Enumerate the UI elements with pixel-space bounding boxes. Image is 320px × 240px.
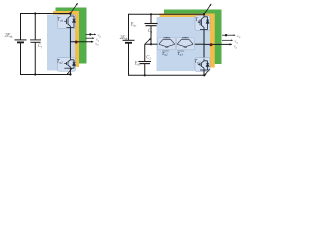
node: output right (dark red): [210, 43, 213, 46]
commutation-cell highlight yellow rectangle (middle): [53, 11, 79, 67]
node: C2 bottom junction: [144, 74, 146, 76]
wire: top rail: [21, 13, 71, 15]
wire: left vertical lower: [20, 43, 22, 75]
voltage arrow row B: [86, 37, 95, 39]
horizontal IGBT cell Ta1bar: [177, 37, 193, 47]
node: top rail / C1 junction: [150, 13, 152, 15]
wire: C1 lower to midpoint branch: [150, 26, 152, 45]
svg-text:Edc: Edc: [130, 22, 137, 27]
node: capacitor bottom junction: [34, 73, 36, 75]
wire: capacitor branch lower: [34, 42, 36, 75]
IGBT Ta2 right with antiparallel diode: [198, 59, 209, 70]
node: C1 to branch junction: [150, 43, 152, 45]
wire: leg middle (Ta1 emitter to Ta2 collector): [69, 28, 71, 58]
wire: left vertical upper: [20, 13, 22, 40]
switch cell box Ta1 right: [195, 16, 210, 31]
middle switch cell box Ta2bar: [158, 37, 176, 50]
commutation-cell highlight green rectangle (back): [56, 8, 87, 64]
arrow bottom commutation: [67, 68, 72, 75]
capacitor C1 plate top: [145, 23, 158, 25]
arrow top commutation right: [204, 4, 211, 14]
capacitor C plate bottom: [31, 41, 41, 43]
arrow midpoint commutation: [145, 38, 151, 44]
svg-text:C2: C2: [146, 56, 151, 61]
svg-text:Ta1: Ta1: [57, 18, 63, 23]
wire: right leg middle: [203, 30, 205, 59]
node: capacitor top junction: [34, 12, 36, 14]
capacitor C2 plate bottom: [140, 63, 151, 65]
switch cell box Ta2: [58, 58, 76, 72]
node: top rail / Ta1 collector junction: [69, 12, 71, 14]
svg-text:C1: C1: [148, 29, 153, 34]
horizontal IGBT cell Ta2bar: [159, 37, 175, 47]
wire: Ta2 emitter to bottom rail: [69, 68, 71, 74]
node on row A: [89, 33, 91, 35]
IGBT Ta2 with antiparallel diode: [64, 57, 75, 68]
arrow top commutation: [71, 3, 78, 13]
middle switch cell box Ta1bar: [176, 37, 194, 50]
wire: output tap right: [204, 43, 232, 45]
node: bottom rail junction: [69, 73, 71, 75]
wire: bottom rail: [20, 74, 70, 76]
battery source 2Edc short plate: [125, 42, 132, 44]
wire: output tap: [70, 41, 93, 43]
battery source 2Edc short plate: [17, 41, 24, 43]
wire: bottom rail right: [128, 74, 204, 76]
switch cell box Ta2 right: [195, 58, 210, 72]
node on row A right: [225, 34, 227, 36]
wire: C2 upper: [144, 44, 146, 61]
voltage arrow row B right: [222, 39, 233, 41]
capacitor C2 plate top: [139, 61, 152, 63]
voltage arrow row A right: [222, 34, 235, 36]
wire: Ta2 emitter to bottom rail right: [203, 70, 205, 75]
IGBT Ta1 right with antiparallel diode: [198, 14, 209, 29]
svg-text:Edc: Edc: [134, 61, 141, 66]
node: bottom rail junction right: [203, 74, 205, 76]
svg-text:va: va: [237, 33, 241, 39]
highlight blue rectangle (front): [157, 17, 211, 71]
switch cell box Ta1: [58, 15, 76, 29]
label Ta2bar: [162, 51, 169, 57]
wire: C1 upper: [150, 14, 152, 23]
node: output (dark red): [75, 41, 78, 44]
battery source 2Edc long plate: [123, 39, 135, 41]
wire: capacitor branch upper: [34, 14, 36, 40]
voltage arrow row A: [86, 33, 96, 35]
capacitor C plate top: [30, 39, 41, 41]
svg-text:Ta2: Ta2: [57, 60, 63, 65]
highlight yellow rectangle (middle): [160, 14, 215, 68]
wire: left vertical lower: [128, 43, 130, 75]
wire: midpoint branch: [145, 43, 160, 45]
commutation-cell highlight blue rectangle (front): [47, 15, 75, 71]
arrow bottom commutation right: [205, 69, 210, 75]
IGBT Ta1 with antiparallel diode: [64, 14, 75, 28]
node: top rail / Ta1 collector junction: [203, 13, 205, 15]
svg-text:va: va: [95, 41, 99, 47]
wire: C2 lower: [144, 64, 146, 76]
capacitor C1 plate bottom: [146, 25, 157, 27]
wire: top rail: [129, 13, 205, 15]
label Ta1bar: [177, 51, 184, 57]
wire: left vertical upper: [128, 14, 130, 40]
svg-text:va: va: [234, 44, 238, 50]
battery source 2Edc long plate: [15, 39, 27, 41]
highlight green rectangle (back): [164, 10, 222, 65]
